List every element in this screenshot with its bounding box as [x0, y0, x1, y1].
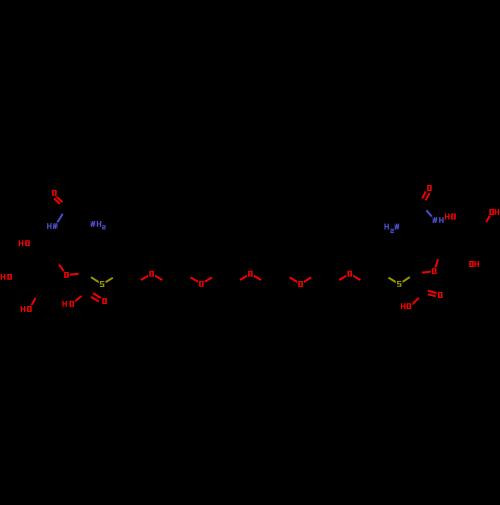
double bond C=O carboxyl left line1: [93, 293, 101, 298]
bond HO-C(=O) left half: [72, 296, 82, 304]
bond S-CH2 left half: [102, 278, 113, 284]
label ring O left: [63, 271, 70, 279]
bond O3-CH2 right half: [250, 274, 261, 280]
label amide HN left: [46, 222, 59, 230]
double bond C=O acetyl right line1: [426, 193, 430, 200]
bond ringO-C2 left half: [66, 274, 78, 275]
bond ringO-C2 right half: [422, 271, 434, 272]
bond S-C2 right half: [399, 277, 410, 284]
label carboxyl O right: [437, 291, 444, 299]
label hydroxyl HO left mid: [0, 273, 13, 281]
bond O1-CH2 left half: [141, 274, 152, 280]
label ether O1: [148, 270, 155, 278]
label amine H2N right: [383, 223, 400, 234]
bond O5-CH2 left half: [339, 274, 350, 280]
double bond C=O carboxyl right line2: [428, 294, 436, 296]
label hydroxyl OH right mid: [468, 260, 480, 268]
bond HO-C9 left half: [29, 298, 35, 309]
label amine NH2 left: [90, 220, 107, 230]
label ether O5: [346, 270, 353, 278]
label amide NH right: [432, 216, 445, 224]
double bond C=O acetyl right line2: [422, 191, 426, 198]
bond ringO-C6 right half: [434, 259, 438, 271]
bond OH-C9 right half: [486, 212, 491, 222]
bond O2-CH2 left half: [191, 277, 202, 283]
label ether O2: [198, 280, 205, 288]
bond O4-CH2 left half: [290, 277, 301, 284]
double bond C=O acetyl left line2: [54, 198, 60, 204]
bond HO-C(=O) right half: [410, 298, 419, 307]
label thioether S left: [99, 280, 106, 288]
label hydroxyl HO left lower: [20, 305, 33, 313]
label ring O right: [431, 267, 438, 275]
label hydroxyl HO right upper: [444, 213, 457, 221]
double bond C=O carboxyl right line1: [428, 291, 437, 293]
label carboxyl O left: [101, 297, 108, 305]
bond N-C(=O) left half: [55, 214, 63, 226]
label acetyl O left: [51, 189, 58, 197]
label ether O3: [247, 270, 254, 278]
bond ringO-C6 left half: [59, 265, 66, 275]
bond O2-CH2 right half: [201, 277, 212, 283]
double bond C=O carboxyl left line2: [91, 297, 99, 302]
double bond C=O acetyl left line1: [56, 196, 63, 203]
bond O3-CH2 left half: [240, 274, 251, 280]
label hydroxyl HO left upper: [18, 239, 31, 247]
bond O4-CH2 right half: [301, 277, 312, 284]
bond S-CH2 right half: [389, 278, 400, 285]
label hydroxyl OH right top: [488, 208, 500, 216]
bond O1-CH2 right half: [152, 274, 163, 280]
label carboxyl HO right: [400, 302, 413, 310]
label thioether S right: [396, 280, 403, 288]
label carboxyl HO left: [61, 300, 75, 308]
bond S-C2 left half: [91, 277, 102, 284]
bond N-C(=O) right half: [426, 210, 435, 220]
bond O5-CH2 right half: [350, 274, 361, 280]
label acetyl O right: [426, 184, 433, 192]
label ether O4: [297, 280, 304, 288]
